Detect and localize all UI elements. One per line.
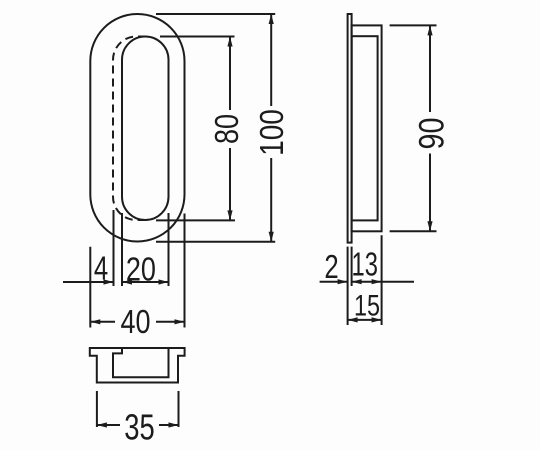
svg-text:20: 20 — [126, 252, 156, 288]
svg-text:80: 80 — [209, 114, 245, 144]
svg-text:35: 35 — [124, 407, 154, 448]
svg-text:2: 2 — [324, 249, 338, 286]
svg-text:13: 13 — [351, 247, 377, 284]
svg-text:4: 4 — [94, 251, 108, 288]
svg-text:40: 40 — [120, 304, 150, 340]
svg-text:90: 90 — [412, 118, 451, 150]
svg-text:100: 100 — [254, 109, 291, 156]
svg-text:15: 15 — [354, 289, 380, 322]
